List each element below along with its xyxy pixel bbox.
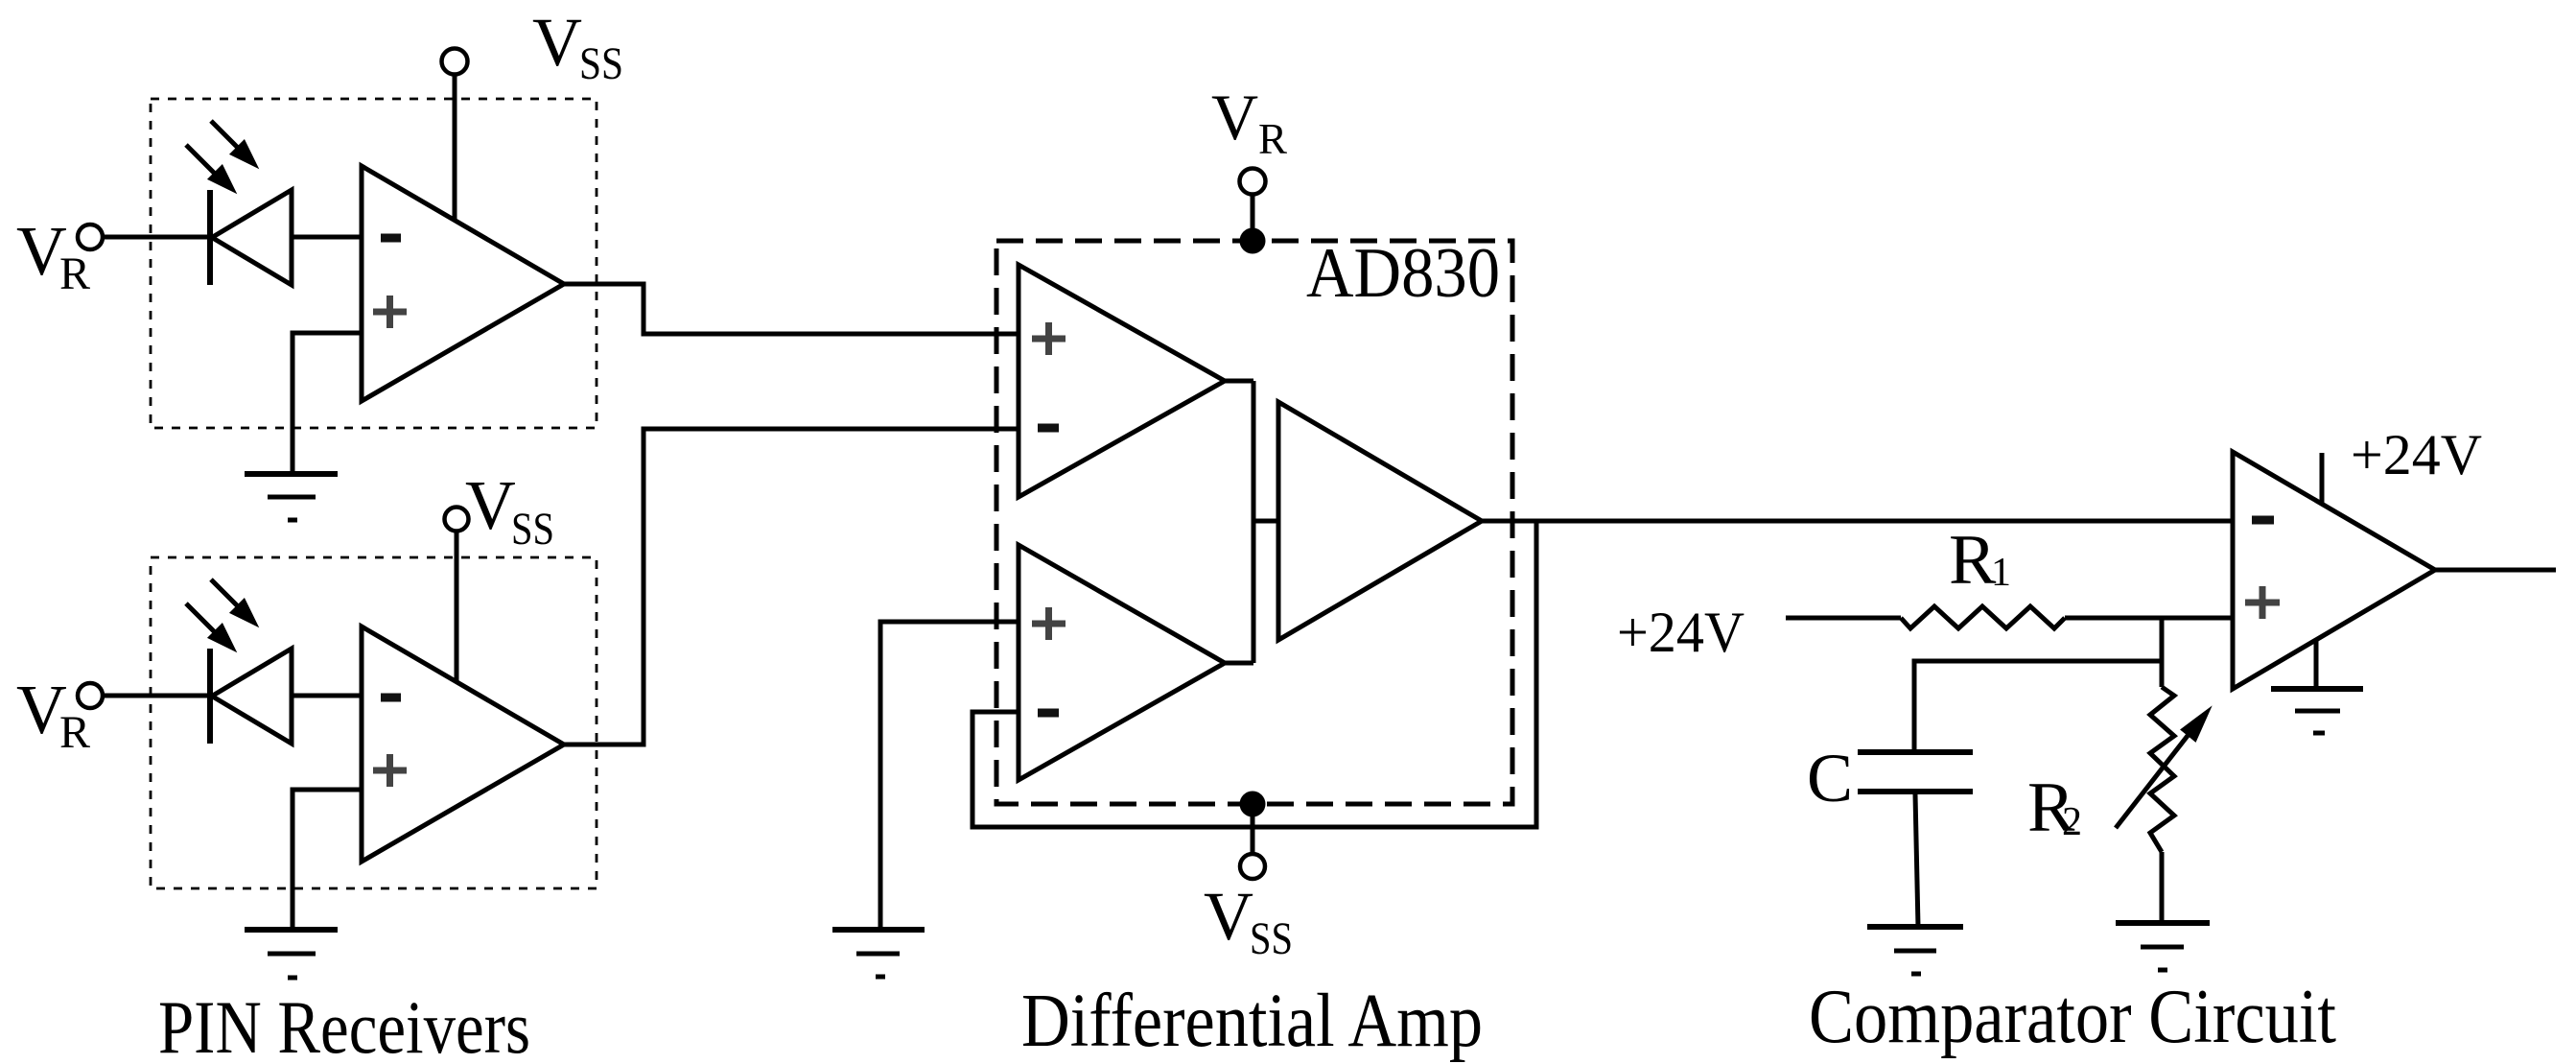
wire VSS terminal stub (AD830 bottom)	[1251, 816, 1255, 854]
wire U3 output to summing bar	[1225, 379, 1253, 384]
minus sign U1	[381, 234, 401, 243]
minus sign U6	[2252, 516, 2274, 525]
svg-text:SS: SS	[1250, 913, 1293, 964]
svg-text:AD830: AD830	[1306, 234, 1500, 313]
svg-text:V: V	[1204, 878, 1253, 955]
label C	[1807, 740, 1853, 816]
plus sign U1	[373, 296, 407, 328]
wire photodiode D1 to op-amp U1 inverting input	[292, 235, 362, 240]
wire AD830 output to comparator inverting input (net OUT1)	[1482, 519, 2233, 524]
svg-text:Comparator Circuit: Comparator Circuit	[1809, 975, 2336, 1059]
plus sign U4	[1032, 607, 1066, 640]
wire U2 output to AD830 - input (net B)	[564, 429, 1019, 745]
minus sign U4	[1038, 709, 1059, 718]
op-amp U3 (AD830 upper input stage)	[1019, 265, 1225, 497]
ground (capacitor C)	[1867, 927, 1963, 974]
wire comparator ground stub	[2314, 640, 2319, 689]
light arrows D2	[186, 579, 256, 650]
terminal VR (receiver 1)	[78, 225, 103, 249]
wire VR terminal stub	[1251, 194, 1255, 233]
op-amp U2 (receiver 2)	[362, 627, 564, 862]
svg-text:1: 1	[1991, 551, 2011, 595]
svg-text:SS: SS	[511, 504, 554, 555]
junction dot VSS on AD830 box	[1240, 792, 1266, 817]
wire U4 non-inverting input	[880, 622, 1019, 930]
terminal VSS (AD830 bottom)	[1240, 854, 1265, 879]
wire comparator output	[2435, 568, 2556, 573]
svg-text:+24V: +24V	[2351, 423, 2482, 486]
svg-text:V: V	[532, 4, 582, 81]
wire summing bar to U5 input	[1252, 519, 1278, 524]
svg-text:R: R	[1258, 115, 1287, 163]
label +24V (comparator supply, top right)	[2351, 423, 2482, 486]
wire R1 to comparator non-inverting input (net REF)	[2065, 616, 2233, 621]
label Differential Amp	[1021, 980, 1483, 1063]
label VSS (receiver 1)	[532, 4, 623, 89]
variable resistor R2	[2150, 687, 2174, 852]
svg-text:V: V	[1211, 81, 1258, 154]
AD830 enclosure (dashed box)	[996, 241, 1512, 804]
svg-text:Differential Amp: Differential Amp	[1021, 980, 1483, 1063]
svg-text:V: V	[465, 466, 516, 544]
photodiode D1	[210, 190, 292, 285]
label R2	[2027, 768, 2082, 847]
minus sign U2	[381, 694, 401, 702]
terminal VSS (receiver 2)	[445, 508, 469, 532]
plus sign U3	[1032, 322, 1066, 355]
terminal VSS (receiver 1)	[442, 49, 468, 75]
svg-text:R: R	[1949, 521, 1997, 600]
label VR (receiver 1)	[16, 212, 90, 299]
wire node REF branch to capacitor C	[1914, 661, 2162, 749]
svg-text:PIN Receivers: PIN Receivers	[158, 985, 530, 1064]
photodiode D2	[210, 649, 292, 744]
wire photodiode D2 to op-amp U2 inverting input	[292, 694, 362, 698]
wire U1 output to AD830 + input (net A)	[564, 284, 1019, 334]
PIN receiver 1 enclosure (dashed box)	[151, 99, 597, 428]
wire capacitor C to ground	[1915, 794, 1918, 927]
wire VR terminal to photodiode D1	[103, 235, 213, 240]
label PIN Receivers	[158, 985, 530, 1064]
svg-text:R: R	[59, 248, 90, 299]
svg-text:R: R	[59, 707, 90, 758]
ground (differential amp)	[832, 930, 925, 977]
PIN receiver 2 enclosure (dashed box)	[151, 557, 597, 888]
wire node REF down to R2	[2160, 618, 2165, 687]
resistor R1	[1901, 606, 2065, 628]
wire VR terminal to photodiode D2	[103, 694, 213, 698]
label Comparator Circuit	[1809, 975, 2336, 1059]
wire U4 output to summing bar	[1225, 661, 1253, 666]
wire VSS supply stub to U1	[453, 75, 457, 220]
wire +24V rail to resistor R1	[1786, 616, 1901, 621]
ground (receiver 2)	[245, 930, 338, 978]
ground (comparator)	[2271, 689, 2363, 733]
svg-text:C: C	[1807, 740, 1853, 816]
terminal VR (receiver 2)	[78, 683, 103, 708]
svg-text:+24V: +24V	[1617, 601, 1745, 664]
light arrows D1	[186, 121, 256, 191]
summing bar (vertical wire)	[1252, 381, 1256, 663]
plus sign U6	[2245, 586, 2280, 619]
wire +24V supply stub (comparator)	[2320, 453, 2325, 504]
label VSS (receiver 2)	[465, 466, 554, 555]
wire U2 non-inverting input	[293, 790, 362, 930]
op-amp U5 (AD830 output stage)	[1278, 402, 1482, 640]
plus sign U2	[373, 754, 407, 787]
op-amp U1 (receiver 1)	[362, 166, 564, 401]
label VSS (AD830 bottom)	[1204, 878, 1293, 964]
wire U4 inverting input feedback from output	[972, 521, 1536, 827]
label R1	[1949, 521, 2011, 600]
junction dot VR on AD830 box	[1240, 228, 1266, 254]
capacitor C	[1858, 752, 1973, 792]
label VR (AD830 top)	[1211, 81, 1287, 163]
arrow of variable resistor R2	[2116, 710, 2209, 828]
label +24V (comparator supply rail, left)	[1617, 601, 1745, 664]
wire VSS supply stub to U2	[455, 531, 459, 682]
label AD830	[1306, 234, 1500, 313]
ground (R2)	[2116, 923, 2210, 970]
svg-text:2: 2	[2062, 800, 2082, 844]
wire U1 non-inverting input	[293, 333, 362, 474]
comparator op-amp U6	[2233, 452, 2435, 689]
svg-text:SS: SS	[579, 38, 623, 89]
label VR (receiver 2)	[16, 671, 90, 758]
minus sign U3	[1038, 424, 1059, 433]
terminal VR (AD830 top)	[1240, 169, 1266, 195]
op-amp U4 (AD830 lower input stage)	[1019, 545, 1225, 780]
ground (receiver 1)	[245, 474, 338, 520]
wire R2 to ground	[2160, 852, 2165, 923]
